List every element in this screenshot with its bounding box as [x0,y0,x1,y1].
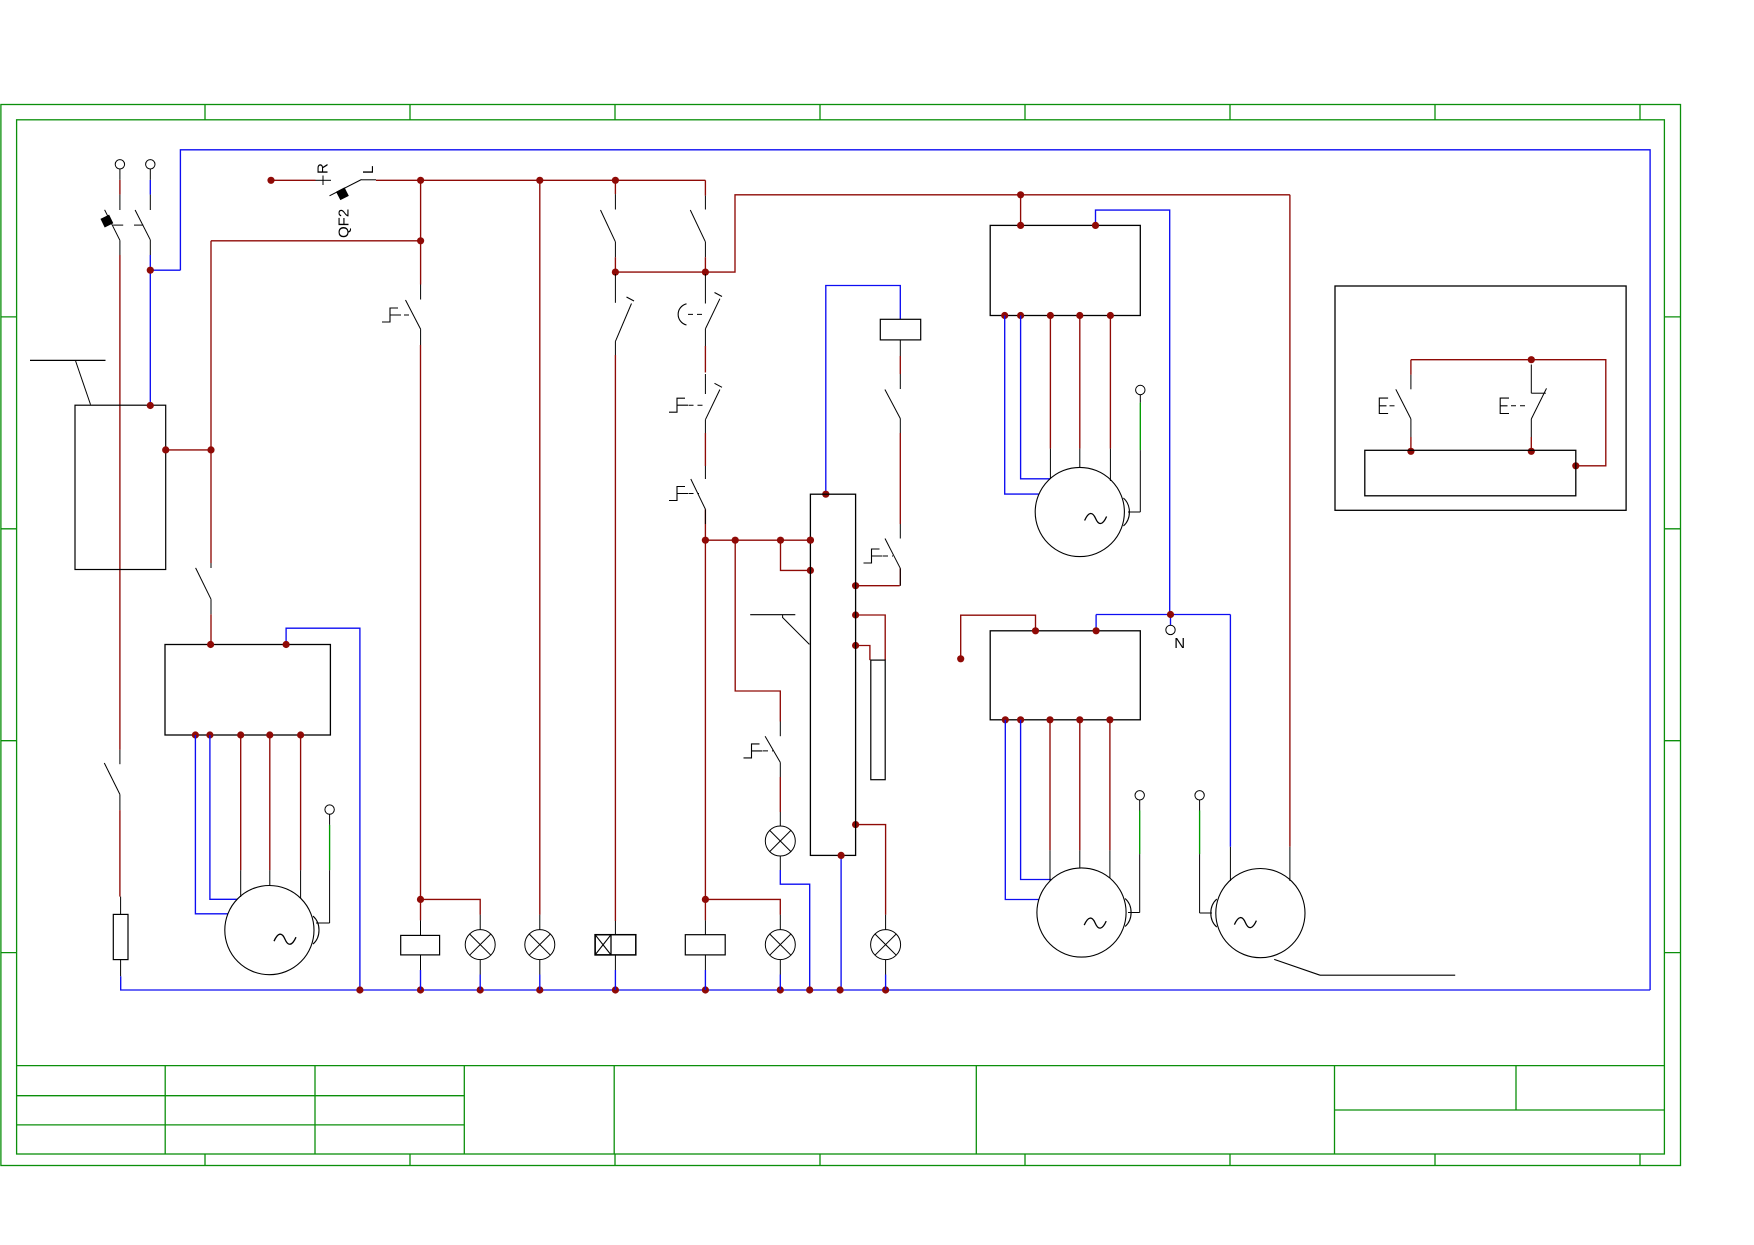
motor M1 [225,886,314,975]
wire contact chain x=705.4 [704,180,706,195]
wire KM2 T1 blue [1005,720,1039,900]
detail terminal box [1365,450,1576,496]
terminal PE M2 [1136,385,1145,394]
svg-text:L: L [360,166,377,174]
wire to pushbutton lamp branch [735,540,780,721]
circuit breaker QF2 [316,179,332,181]
relay coil K1 [880,319,920,340]
wire KM1 T5 [1109,316,1111,449]
contact KM1 auxiliary NO x=615.4 [614,194,616,209]
wire M4 pins [1229,847,1231,881]
wire PE drop M2 [1139,450,1141,512]
svg-text:N: N [1174,635,1185,652]
wire KM3 T5 [300,735,302,870]
contact NC with pull-cord actuator [704,274,706,304]
interlock box K3 [810,494,855,855]
wire KM1 T3 [1049,316,1051,449]
node bus junctions [356,986,363,993]
contact NO x=705.4 top [704,196,706,210]
lamp H2 [479,915,481,930]
wire N top bus loop (neutral) [180,150,1650,990]
lamp H3 [539,915,541,930]
wire control row y=540.2 [705,539,810,541]
wire detail top link [1411,360,1606,466]
motor M4 [1216,869,1305,958]
relay coil KA2 [702,896,709,903]
wire neutral to motor M4 [1229,615,1231,847]
wire KM2 coil A1 branch with stub end [961,615,1036,659]
contact NC with thermal actuator [704,374,706,394]
contact NO with thermal actuator [704,466,706,479]
wire KM2 T2 blue [1021,720,1051,880]
motor M3 [1037,868,1126,957]
wire lamp column x=539.8 [539,180,541,914]
QF1 mechanical link [113,224,123,226]
circuit breaker QF1 pole 2 [135,210,150,240]
switch Q2 lower left [119,750,121,764]
wire branch to lighting circuits y=240.8 [211,240,421,242]
wire KM1 A2 to neutral [1096,210,1170,614]
wire KM3 T4 [269,735,271,870]
wire E1 output to feeder [166,449,211,451]
wire PE green M4 [1199,811,1201,855]
resistor R2 narrow [871,660,885,780]
wire L phase rail from QF2 [376,179,705,181]
resistor R1 [120,897,122,915]
terminal N [1166,625,1175,634]
wire PE green M1 [329,825,331,870]
wire box right edge tap 4 to lamp H5 [856,825,886,915]
wire contact chain x=615.4 [614,180,616,194]
wire phase stub under X1 [119,169,121,180]
svg-text:QF2: QF2 [336,209,353,238]
detail enclosure box [1335,286,1626,510]
svg-text:R: R [315,163,332,174]
contact K1 NO upper [899,374,901,389]
wire KM3 T3 [240,735,242,870]
terminal PE M1 [325,805,334,814]
wire box right edge tap 1 [856,585,900,587]
circuit breaker QF1 pole 1 [105,210,120,241]
wire PE drop M3 [1139,854,1141,912]
meter box E1 [75,405,166,569]
wire box right edge tap 3 [856,646,870,661]
wire KM1 T2 blue [1021,316,1050,479]
lamp H5 [885,915,887,930]
wire KM1 A1 stub [1020,195,1022,226]
impulse relay coil K2 [614,921,616,935]
motor M2 [1035,467,1124,556]
terminal PE M3 [1135,791,1144,800]
contact NO with thermal actuator x=420.5 [420,285,422,300]
wire KM2 T3 [1049,720,1051,851]
relay coil KA1 [420,345,422,899]
limit switch E2 NC [1530,365,1532,394]
wire relay coil column x=900.3 [899,356,901,374]
contact S1 (feeds KM3) [210,563,212,568]
contact NO with thermal actuator feeding H1 [779,722,781,737]
wire L1 to resistor R1 [119,810,121,897]
wire PE drop M4 [1199,854,1201,913]
contactor KM1 box [990,225,1140,315]
wire bottom neutral bus [121,976,1650,990]
terminal X2 neutral [146,160,155,169]
wire KM3 A2 to neutral bus [286,628,360,990]
wire KM2 T4 [1079,720,1081,851]
contactor KM3 box [165,645,330,736]
wire KM3 T1 blue [195,735,228,914]
limit switch E1 NO [1410,360,1412,375]
contact NC x=615.4 lower [614,274,616,303]
terminal X1 phase [115,160,124,169]
wire KM2 T5 [1109,720,1111,851]
wire box right edge tap 2 [856,615,886,660]
wire to lamp H1 [779,777,781,812]
wire box tap y=570.4 [781,540,811,570]
wire neutral stub under X2 [149,169,151,180]
wire KM1 T4 [1079,316,1081,449]
wire KM1 T1 blue [1005,316,1039,495]
wire KA2 to lamp H4 [705,899,780,914]
wire phase drop to motor M4 [1289,195,1291,847]
wire PE drop M1 [329,870,331,923]
wire PE green M2 [1139,403,1141,451]
contactor KM2 box [990,631,1140,720]
wire blue loop to relay coil K1 [826,286,901,495]
wire PE green M3 [1139,811,1141,855]
wire KM3 T2 blue [210,735,237,899]
wire lamp H1 bottom jog to bus [780,870,809,990]
wire interlock box bottom to bus [840,855,842,990]
node neutral junction at QF1 [150,269,180,271]
wire KA1 to lamp H2 [421,899,481,914]
wire rail to contactor KM2 y=194.8 [705,195,1290,272]
wire neutral link N terminal row [1096,614,1230,616]
terminal PE M4 [1195,791,1204,800]
contact K1 NO lower with thermal actuator [899,524,901,539]
knife switch on box K3 [750,614,795,616]
disconnector handle on E1 [30,359,106,361]
actuator lever from M4 [1274,959,1320,975]
lamp H4 [779,915,781,930]
wire L1 rail down left side [119,255,121,750]
wire feeder to left contactor [210,241,212,563]
lamp H1 [779,812,781,826]
